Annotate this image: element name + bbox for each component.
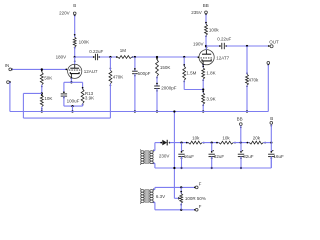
svg-text:32uF: 32uF [243,154,254,159]
node 1.5M top [183,56,185,58]
svg-text:0.22uF: 0.22uF [217,36,231,41]
tube V2 12AT7 envelope [199,50,230,65]
wire PSU top rail seg2 [202,142,219,144]
wire BB tap riser [240,126,242,143]
wire V1 plate to node [74,57,76,64]
svg-text:16uF: 16uF [274,154,285,159]
wire cathode box right lower [82,104,84,107]
node C7 top [211,141,213,143]
transformer T1 230V HV winding [140,149,169,164]
pot wiper arrow [174,197,180,200]
wire IN to grid V1 [12,68,66,70]
tube V1 12AU7 envelope [68,64,98,78]
wire C5 to OUT [226,45,268,47]
svg-text:10k: 10k [222,135,230,140]
svg-text:100k: 100k [209,28,220,33]
svg-text:F: F [199,204,202,209]
wire B terminal to R1 [74,16,76,38]
wire T1 to diode [155,142,161,144]
node pot top [180,186,182,188]
node cathode tee V2 [202,88,204,90]
wire output ground down [267,65,269,112]
svg-text:12AT7: 12AT7 [216,55,229,60]
wire cathode box bottom [64,105,83,107]
wire T1 secondary bottom lead [153,162,155,168]
node 190V plate of V2 [193,42,207,48]
terminal F heater top [194,182,202,189]
wire PSU bottom rail [155,157,271,170]
svg-text:12AU7: 12AU7 [84,69,98,74]
resistor R9 3.9K [202,91,216,107]
svg-text:220V: 220V [59,10,70,15]
terminal B PSU output [270,116,273,126]
resistor R3 10K [40,94,52,110]
svg-text:0.22uF: 0.22uF [89,49,103,54]
terminal BB (235V supply) [191,3,209,15]
svg-text:500pF: 500pF [138,71,151,76]
wire PSU top rail seg1 [170,142,189,144]
V1 plate [70,60,79,68]
wire out tee to 470k [246,46,248,74]
capacitor C1 0.22uF coupling [89,49,103,60]
wire R1 to 180V node [74,47,76,57]
wire C1 to R4 [99,56,117,58]
svg-text:230V: 230V [159,153,170,158]
wire 500pF upper lead [134,57,136,71]
terminal F heater bottom [194,204,202,211]
wire C3 to ground bus [156,89,158,113]
node C6 top [180,141,182,143]
capacitor C5 0.22uF output coupling [217,36,231,49]
svg-text:100R 50%: 100R 50% [185,196,206,201]
capacitor C6 16uF [178,143,194,170]
capacitor C7 32uF [209,143,225,170]
resistor R5 470K feedback [109,68,123,87]
transformer T2 6.3V heater winding [140,188,165,203]
wire V2 cathode to R8 [202,65,204,68]
svg-text:IN: IN [5,63,10,68]
wire R10 to 190V node [205,35,207,46]
svg-text:20k: 20k [253,135,261,140]
wire 470K bottom to feedback bus [109,84,111,119]
V1 grid [65,69,80,71]
wire heater bottom rail [155,209,195,211]
wire T2 bottom lead [153,201,155,209]
wire BB terminal to R10 [205,15,207,25]
wire R9 to ground bus [202,104,204,112]
svg-text:32uF: 32uF [214,154,225,159]
svg-text:100K: 100K [79,40,90,45]
resistor R18 20k filter [247,135,266,144]
wire feedback bus [23,117,110,119]
node BB tap [240,141,242,143]
svg-text:470k: 470k [249,77,260,82]
terminal OUT [268,39,279,47]
capacitor C2 500pF [132,68,151,77]
V2 cathode [202,59,211,65]
wire cathode box right upper [82,82,84,89]
node 150K top [156,56,158,58]
svg-text:BB: BB [237,116,243,121]
wire 470k to ground bus [246,85,248,112]
wire PSU top rail seg4 [263,142,271,144]
wire cathode box left lower [63,96,65,106]
svg-text:235V: 235V [191,10,202,15]
node 180V plate of V1 [56,55,76,60]
wire 1.5M bottom corner [184,80,203,89]
wire cathode box top [64,81,83,83]
capacitor C4 100uF cathode bypass [61,91,80,103]
node output tee [246,45,248,47]
wire R6 to C3 [156,76,158,86]
node 500pF top [134,56,136,58]
node pot bottom [180,209,182,211]
wire feedback to tee [23,92,41,94]
node B tap [270,141,272,143]
svg-text:BB: BB [203,3,209,8]
wire R8 to cathode tee [202,79,204,93]
node EQ input [109,56,111,58]
wire 180V node to C1 [75,56,94,58]
potentiometer 100R hum balance [180,187,206,209]
capacitor C3 2000pF [154,83,177,92]
V2 grid [198,56,213,58]
wire R2 to tee [41,85,43,95]
svg-text:10K: 10K [44,96,52,101]
resistor R1 100K plate load V1 [73,34,89,49]
terminal B (220V supply) [59,3,76,17]
svg-text:B: B [73,3,76,8]
svg-text:190V: 190V [193,42,204,47]
capacitor C9 16uF [268,143,284,168]
wire R4 to grid V2 [132,56,199,58]
wire PSU top rail seg3 [233,142,249,144]
svg-text:470K: 470K [113,74,124,79]
wire ground drop to PSU [173,110,175,198]
svg-text:F: F [199,182,202,187]
resistor R13 3.9K cathode [81,87,94,106]
resistor R17 10k filter [216,135,236,144]
wire cathode box left upper [63,82,65,92]
wire B tap riser [270,125,272,143]
wire heater top rail [155,186,195,188]
V1 cathode [70,72,79,79]
resistor R16 10k filter [186,135,205,144]
V2 plate [202,47,211,54]
wire ground bus [10,111,268,113]
terminal BB PSU output [237,116,243,128]
resistor R7 1.5M [183,64,197,82]
wire T1 secondary top lead [153,143,155,152]
terminal IN ground [7,81,11,84]
wire T2 top lead [153,187,155,190]
svg-text:1.5M: 1.5M [186,70,196,75]
svg-text:B: B [270,116,273,121]
svg-text:3.9K: 3.9K [85,96,94,101]
resistor R10 100k plate load V2 [205,22,220,37]
wire 1.5M upper lead [183,57,185,66]
wire R3 to ground bus [41,107,43,113]
svg-text:6.3V: 6.3V [156,194,165,199]
wire box tap to ground bus [71,106,73,113]
wire 190V node to C5 [206,45,220,47]
svg-text:OUT: OUT [269,39,279,44]
diode D1 rectifier [160,140,170,146]
svg-text:10k: 10k [192,135,200,140]
resistor R4 1M series [116,48,133,58]
wire 500pF to ground bus [134,74,136,113]
resistor R2 50K [40,70,52,87]
svg-text:100uF: 100uF [67,99,80,104]
terminal IN [5,63,13,71]
svg-text:180V: 180V [56,55,67,60]
resistor R6 150K [156,58,171,79]
node grid V1 / R2 top [41,68,43,70]
svg-text:3.9K: 3.9K [206,97,215,102]
svg-text:1.8K: 1.8K [206,70,215,75]
svg-text:50K: 50K [44,76,52,81]
wire 470K top [109,57,111,70]
node feedback tee [41,92,43,94]
resistor R8 1.8K [202,66,216,81]
wire V2 plate lead [205,46,207,50]
terminal output ground [267,62,270,66]
wire feedback riser [22,93,24,118]
svg-text:2000pF: 2000pF [161,86,177,91]
resistor R15 470k grid leak [246,72,259,87]
capacitor C8 32uF [238,143,254,170]
wire IN ground down to bus [9,82,11,111]
svg-text:1M: 1M [120,48,127,53]
svg-text:16uF: 16uF [184,154,195,159]
wire V1 cathode to RC box [70,78,72,83]
svg-text:150K: 150K [160,65,171,70]
